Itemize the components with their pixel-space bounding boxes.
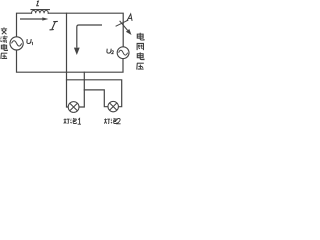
label dengpao1 灯泡1: [64, 118, 77, 124]
label A: [127, 14, 132, 21]
switch break slash at A: [116, 20, 129, 26]
wire top-right segment and right rail down to U2: [48, 13, 123, 47]
wire bus C V2 to bulb2 left: [84, 90, 108, 107]
ac source U2: [117, 47, 129, 59]
label L: [37, 1, 39, 6]
wire V2 bus A to bulb1 right: [79, 72, 84, 107]
wire U2 bottom to bottom bus to left rail up to U1: [17, 50, 124, 72]
left vertical text 交流电压: [0, 27, 7, 59]
label U1: [27, 39, 33, 45]
wire bus B V1 to bulb2 right: [67, 80, 122, 107]
inductor L coil: [32, 10, 49, 13]
lamp bulb1: [68, 102, 79, 113]
node wire V1 top to bulb1 left: [67, 13, 69, 107]
right vertical text 电网电压: [137, 33, 144, 70]
label I: [50, 21, 58, 29]
current arrow right loop (L-shaped, down): [74, 25, 102, 55]
label U2: [107, 49, 114, 54]
switch arrow toward A: [120, 21, 132, 35]
wire top-left segment: [17, 13, 32, 37]
ac source U1: [10, 37, 23, 50]
inductor core bar: [31, 9, 49, 11]
lamp bulb2: [108, 101, 118, 111]
label dengpao2 灯泡2: [104, 118, 117, 124]
current arrow I left loop: [20, 17, 48, 20]
